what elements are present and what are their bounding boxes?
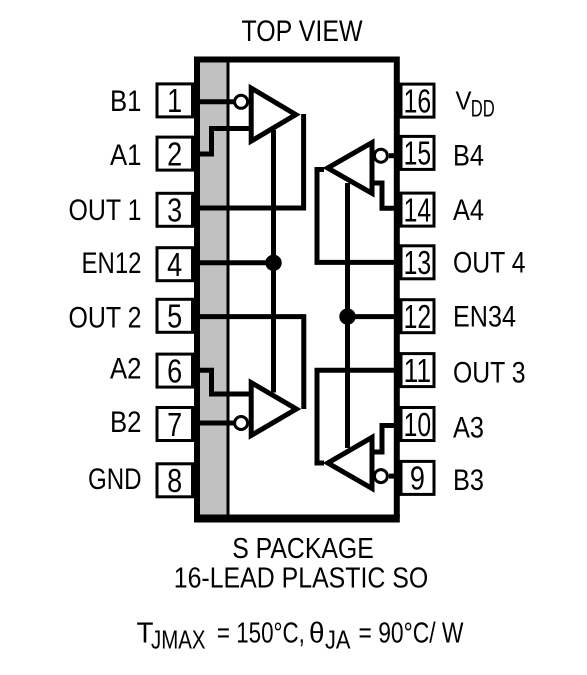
svg-text:16: 16 <box>404 82 432 119</box>
svg-text:A3: A3 <box>453 412 484 445</box>
svg-text:14: 14 <box>404 191 432 228</box>
svg-text:OUT 2: OUT 2 <box>69 301 142 334</box>
svg-text:13: 13 <box>404 244 432 281</box>
svg-text:GND: GND <box>88 463 142 496</box>
svg-text:5: 5 <box>167 299 182 335</box>
svg-text:6: 6 <box>167 354 182 390</box>
svg-text:θ: θ <box>309 617 325 649</box>
svg-text:DD: DD <box>471 95 495 122</box>
svg-text:= 90°C/ W: = 90°C/ W <box>359 617 464 649</box>
svg-text:= 150°C,: = 150°C, <box>217 617 305 649</box>
svg-text:3: 3 <box>167 193 182 229</box>
svg-text:OUT 3: OUT 3 <box>453 357 526 390</box>
svg-text:OUT 4: OUT 4 <box>453 247 526 280</box>
svg-text:S PACKAGE: S PACKAGE <box>232 533 374 565</box>
svg-text:JMAX: JMAX <box>151 626 206 654</box>
svg-text:15: 15 <box>404 135 432 172</box>
svg-text:EN12: EN12 <box>82 247 142 280</box>
svg-text:11: 11 <box>404 352 432 389</box>
svg-text:B1: B1 <box>110 85 142 118</box>
svg-text:TOP VIEW: TOP VIEW <box>242 15 363 48</box>
svg-text:JA: JA <box>325 626 351 654</box>
svg-text:A2: A2 <box>110 353 142 386</box>
svg-text:9: 9 <box>410 461 425 497</box>
svg-text:B2: B2 <box>110 406 142 439</box>
svg-text:A1: A1 <box>110 139 142 172</box>
svg-text:B3: B3 <box>453 464 484 497</box>
svg-text:1: 1 <box>167 84 182 120</box>
svg-text:16-LEAD PLASTIC SO: 16-LEAD PLASTIC SO <box>174 563 429 595</box>
svg-text:8: 8 <box>167 464 182 500</box>
svg-text:B4: B4 <box>453 139 484 172</box>
svg-text:10: 10 <box>404 406 432 443</box>
svg-text:V: V <box>456 86 473 116</box>
svg-text:EN34: EN34 <box>453 300 516 333</box>
svg-text:7: 7 <box>167 407 182 443</box>
svg-text:4: 4 <box>167 248 182 284</box>
svg-text:A4: A4 <box>453 194 484 227</box>
svg-text:2: 2 <box>167 137 182 173</box>
svg-text:OUT 1: OUT 1 <box>69 194 142 227</box>
svg-text:12: 12 <box>404 298 432 335</box>
